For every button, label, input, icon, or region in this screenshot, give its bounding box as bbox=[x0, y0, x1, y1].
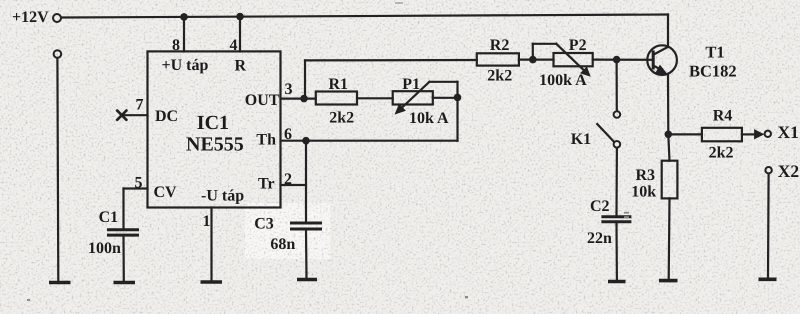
wire R1 to P1 bbox=[357, 97, 393, 99]
svg-text:P1: P1 bbox=[402, 76, 420, 93]
svg-text:R2: R2 bbox=[490, 37, 510, 54]
wire junction to switch bbox=[615, 60, 617, 111]
svg-text:Tr: Tr bbox=[258, 176, 275, 193]
node base junction bbox=[613, 56, 621, 64]
wire R4 to X1 arrow bbox=[742, 133, 755, 135]
wire emitter to R4 bbox=[668, 133, 702, 135]
wire X2 to ground bbox=[767, 174, 770, 278]
junction rail / pin 8 bbox=[180, 13, 188, 21]
wire P2 wiper bypass bbox=[533, 44, 557, 60]
pin 7 no-connect cross bbox=[117, 111, 126, 120]
svg-text:DC: DC bbox=[155, 108, 178, 125]
svg-text:R3: R3 bbox=[636, 167, 656, 184]
svg-text:C2: C2 bbox=[590, 198, 610, 215]
svg-text:10k: 10k bbox=[631, 184, 656, 201]
svg-text:X1: X1 bbox=[778, 122, 799, 142]
svg-text:2: 2 bbox=[284, 171, 292, 188]
svg-text:P2: P2 bbox=[569, 37, 587, 54]
ground bbox=[759, 277, 777, 281]
wire riser OUT to R2 bbox=[305, 60, 477, 99]
switch K1 bbox=[571, 111, 621, 148]
wire pin 8 bbox=[183, 17, 185, 52]
wire junction to R3 bbox=[668, 134, 669, 160]
svg-text:R1: R1 bbox=[329, 76, 349, 93]
svg-text:2k2: 2k2 bbox=[329, 110, 354, 127]
wire pin 3 OUT bbox=[281, 97, 316, 99]
node emitter junction bbox=[665, 131, 673, 139]
wire right leg down bbox=[456, 82, 458, 141]
svg-text:2k2: 2k2 bbox=[487, 68, 512, 85]
svg-text:10k A: 10k A bbox=[409, 110, 449, 127]
wire R3 to ground bbox=[668, 198, 671, 279]
svg-text:X2: X2 bbox=[778, 161, 799, 181]
arrow into X1 bbox=[754, 129, 764, 139]
svg-text:68n: 68n bbox=[270, 236, 295, 253]
wire R2 to junction bbox=[519, 58, 554, 60]
wire +12V rail bbox=[62, 15, 669, 18]
wire Th to C3 drop bbox=[305, 141, 307, 222]
ground bbox=[114, 281, 136, 285]
svg-text:C3: C3 bbox=[254, 216, 274, 233]
capacitor C1 bbox=[88, 209, 139, 257]
svg-text:T1: T1 bbox=[705, 43, 724, 62]
svg-text:7: 7 bbox=[136, 97, 144, 114]
wire pin 2 Tr bbox=[281, 184, 307, 186]
svg-text:3: 3 bbox=[285, 81, 293, 98]
svg-text:C1: C1 bbox=[99, 209, 119, 226]
svg-text:2k2: 2k2 bbox=[709, 145, 734, 162]
junction rail / pin 4 bbox=[236, 13, 244, 21]
wire left ground drop bbox=[56, 58, 59, 281]
terminal X1 bbox=[765, 122, 799, 142]
wire C3 to ground bbox=[305, 231, 308, 279]
label T1 BC182 bbox=[689, 43, 737, 81]
wire pin 4 bbox=[239, 17, 241, 52]
svg-text:Th: Th bbox=[256, 132, 276, 149]
wire emitter down bbox=[667, 75, 669, 135]
capacitor C2 bbox=[587, 198, 631, 247]
ground bbox=[608, 280, 626, 284]
svg-text:6: 6 bbox=[284, 126, 292, 143]
scan speck bbox=[27, 2, 629, 301]
terminal X2 bbox=[765, 161, 799, 181]
svg-text:BC182: BC182 bbox=[689, 62, 737, 81]
wire C1 to ground bbox=[122, 236, 125, 281]
ground bbox=[49, 281, 71, 285]
op-amp U1: IC1 NE555 timer body bbox=[148, 51, 281, 207]
node R2/P2 junction bbox=[529, 56, 537, 64]
wire P1 wiper to right leg bbox=[429, 81, 457, 83]
+12V terminal bbox=[12, 9, 61, 26]
wire switch to C2 bbox=[615, 148, 618, 216]
svg-text:CV: CV bbox=[154, 184, 178, 201]
svg-text:R4: R4 bbox=[713, 108, 733, 125]
svg-text:R: R bbox=[235, 58, 247, 75]
wire P1 to junction bbox=[433, 97, 458, 99]
wire collector drop from rail bbox=[667, 15, 669, 48]
ground bbox=[297, 278, 317, 282]
wire P2 to base bbox=[593, 58, 653, 60]
svg-text:K1: K1 bbox=[571, 131, 591, 148]
resistor R4 bbox=[702, 108, 742, 162]
svg-text:-U táp: -U táp bbox=[201, 188, 244, 205]
potentiometer P2 bbox=[539, 37, 593, 89]
svg-text:OUT: OUT bbox=[245, 92, 280, 109]
svg-text:1: 1 bbox=[203, 213, 211, 230]
0V terminal bbox=[54, 50, 62, 58]
wire pin 7 bbox=[123, 114, 148, 116]
capacitor C3 bbox=[254, 216, 322, 254]
potentiometer P1 bbox=[393, 76, 449, 127]
ground bbox=[659, 279, 678, 283]
node P1 right junction bbox=[454, 94, 462, 102]
node OUT junction bbox=[300, 95, 308, 103]
resistor R2 bbox=[477, 37, 519, 85]
svg-text:5: 5 bbox=[135, 175, 143, 192]
node Th junction bbox=[302, 137, 310, 145]
wire pin 1 bbox=[210, 208, 212, 281]
resistor R1 bbox=[316, 76, 357, 127]
svg-text:+12V: +12V bbox=[12, 9, 49, 26]
svg-text:NE555: NE555 bbox=[186, 134, 244, 156]
ground bbox=[201, 280, 223, 284]
svg-text:IC1: IC1 bbox=[197, 112, 229, 134]
transistor Q1: T1 BC182 bbox=[647, 45, 677, 75]
svg-text:100n: 100n bbox=[88, 240, 121, 257]
svg-text:100k A: 100k A bbox=[539, 72, 587, 89]
wire Th feedback line bbox=[281, 140, 458, 142]
wire pin 5 bbox=[124, 189, 148, 229]
resistor R3 bbox=[631, 161, 677, 201]
svg-text:+U táp: +U táp bbox=[162, 57, 209, 74]
svg-text:22n: 22n bbox=[587, 230, 612, 247]
wire C2 to ground bbox=[615, 223, 618, 280]
